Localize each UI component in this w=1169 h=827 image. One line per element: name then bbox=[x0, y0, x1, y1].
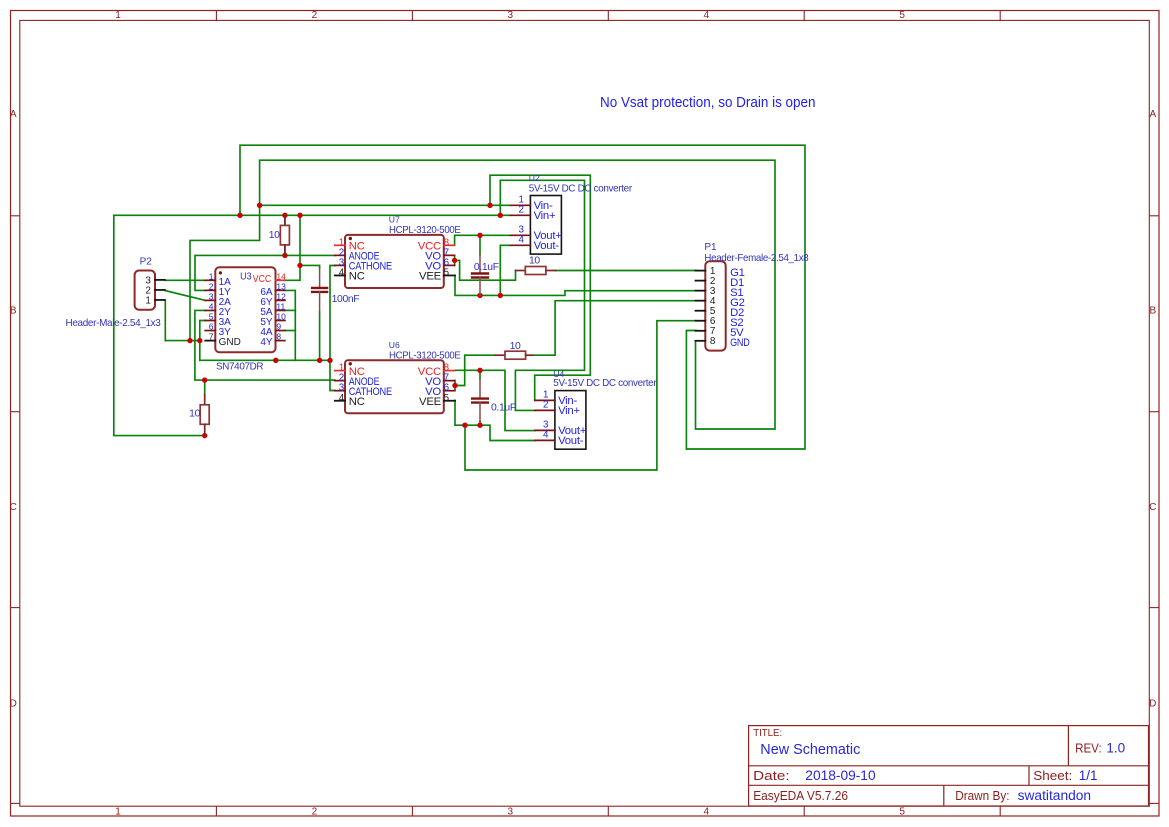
wire P2 pin3 to U3 pin1 bbox=[165, 279, 205, 281]
svg-text:VEE: VEE bbox=[419, 271, 442, 283]
junction R4 bottom bbox=[202, 433, 207, 438]
wire 0.1uF C2 top stub bbox=[479, 235, 481, 255]
wire R1 top stub bbox=[284, 215, 286, 225]
junction R1 top bbox=[282, 213, 287, 218]
svg-text:Header-Female-2.54_1x8: Header-Female-2.54_1x8 bbox=[704, 253, 809, 264]
svg-text:U3: U3 bbox=[240, 271, 252, 282]
svg-text:C: C bbox=[10, 502, 17, 513]
junction GND wireC bbox=[257, 203, 262, 208]
svg-text:4: 4 bbox=[339, 393, 345, 404]
wire 5V branch to U4 Vin+ bbox=[500, 180, 584, 410]
svg-text:9: 9 bbox=[276, 322, 281, 332]
junction C2 bottom bbox=[477, 293, 482, 298]
wire U3 2Y to U6 ANODE rail bbox=[195, 310, 335, 380]
svg-text:7: 7 bbox=[209, 332, 214, 342]
svg-text:EasyEDA V5.7.26: EasyEDA V5.7.26 bbox=[753, 789, 848, 803]
svg-text:0.1uF: 0.1uF bbox=[474, 262, 499, 273]
wire VEE to P1 S2 bbox=[465, 321, 696, 470]
svg-text:8: 8 bbox=[710, 336, 716, 347]
junction 100nF bottom bbox=[317, 358, 322, 363]
opto-coupler U7 HCPL-3120-500E bbox=[335, 214, 461, 288]
svg-text:REV:: REV: bbox=[1075, 741, 1102, 755]
svg-text:5: 5 bbox=[899, 807, 905, 818]
svg-text:2: 2 bbox=[518, 205, 523, 216]
wire 5V horizontal rail bbox=[114, 214, 511, 216]
opto-coupler U6 HCPL-3120-500E bbox=[335, 340, 461, 413]
wire U6 VO to R3 bbox=[455, 355, 495, 385]
svg-text:Vout-: Vout- bbox=[558, 435, 584, 447]
svg-text:swatitandon: swatitandon bbox=[1018, 788, 1092, 803]
svg-text:6: 6 bbox=[209, 322, 214, 332]
wire R3 to P1 G2 bbox=[533, 301, 696, 356]
svg-text:Vin+: Vin+ bbox=[534, 210, 556, 222]
svg-text:Date:: Date: bbox=[753, 769, 789, 783]
svg-text:5: 5 bbox=[899, 10, 905, 21]
svg-text:13: 13 bbox=[276, 281, 286, 291]
wire U3 pin13 bus bbox=[285, 290, 295, 360]
wire 5V: P1 pin7 to top rail bbox=[240, 145, 805, 449]
wire R4 bottom stub bbox=[204, 434, 206, 436]
svg-text:2: 2 bbox=[209, 281, 214, 291]
svg-text:2018-09-10: 2018-09-10 bbox=[805, 768, 875, 783]
wire GND branch to U4 Vin- bbox=[490, 175, 590, 400]
svg-text:VCC: VCC bbox=[253, 274, 271, 285]
DC-DC converter U2 bbox=[510, 173, 632, 254]
svg-text:No Vsat protection, so Drain i: No Vsat protection, so Drain is open bbox=[600, 94, 816, 111]
wire GND to U2 Vin- bbox=[260, 204, 511, 206]
svg-text:5: 5 bbox=[444, 393, 450, 404]
svg-text:HCPL-3120-500E: HCPL-3120-500E bbox=[389, 225, 461, 236]
junction 5V U4 branch bbox=[498, 213, 503, 218]
svg-text:TITLE:: TITLE: bbox=[753, 728, 782, 739]
svg-text:GND: GND bbox=[730, 337, 750, 349]
svg-text:10: 10 bbox=[189, 409, 200, 420]
svg-text:Drawn By:: Drawn By: bbox=[955, 789, 1009, 803]
svg-text:B: B bbox=[10, 306, 17, 317]
svg-text:11: 11 bbox=[276, 301, 285, 311]
svg-text:10: 10 bbox=[269, 230, 280, 241]
svg-text:0.1uF: 0.1uF bbox=[491, 402, 516, 413]
svg-text:1: 1 bbox=[115, 807, 121, 818]
junction VEE S2 bbox=[462, 423, 467, 428]
junction U6 VO tie bbox=[452, 383, 457, 388]
svg-text:10: 10 bbox=[529, 255, 540, 266]
wire R2 to P1 G1 bbox=[556, 270, 697, 272]
svg-text:Vout-: Vout- bbox=[534, 240, 560, 252]
wire U3 pin5 drop bbox=[200, 321, 205, 361]
wire VCC to 100nF top bbox=[300, 265, 320, 268]
junction GND P2 bbox=[187, 338, 192, 343]
svg-text:4: 4 bbox=[704, 807, 710, 818]
DC-DC converter U4 bbox=[535, 369, 657, 449]
svg-text:5V-15V DC DC converter: 5V-15V DC DC converter bbox=[553, 378, 657, 389]
svg-text:NC: NC bbox=[349, 271, 365, 283]
svg-text:4: 4 bbox=[543, 430, 549, 441]
junction U3 VCC riser bbox=[297, 213, 302, 218]
wire U3 VCC riser bbox=[285, 215, 300, 280]
capacitor C1 100nF bbox=[311, 268, 359, 312]
svg-text:U2: U2 bbox=[529, 173, 540, 183]
svg-text:GND: GND bbox=[219, 337, 241, 348]
svg-text:1: 1 bbox=[209, 271, 214, 281]
resistor R2 10 bbox=[516, 255, 556, 274]
svg-text:A: A bbox=[10, 109, 17, 120]
svg-text:3: 3 bbox=[209, 291, 214, 301]
svg-text:4: 4 bbox=[209, 301, 214, 311]
svg-text:C: C bbox=[1149, 502, 1156, 513]
junction U7 VO tie bbox=[452, 258, 457, 263]
capacitor C3 0.1uF bbox=[471, 379, 516, 422]
junction GND U3 pin7 bbox=[197, 338, 202, 343]
svg-text:2: 2 bbox=[312, 807, 318, 818]
svg-text:14: 14 bbox=[276, 271, 286, 281]
svg-text:Sheet:: Sheet: bbox=[1033, 769, 1072, 783]
junction 5V/wireA bbox=[237, 213, 242, 218]
wire U3 pin11 stub bbox=[285, 309, 295, 311]
svg-text:1.0: 1.0 bbox=[1106, 741, 1125, 756]
wire U2 Vout- drop bbox=[500, 245, 510, 295]
svg-text:1: 1 bbox=[145, 295, 151, 306]
svg-text:4Y: 4Y bbox=[260, 337, 273, 348]
svg-text:100nF: 100nF bbox=[332, 294, 360, 305]
IC U3 SN7407DR bbox=[205, 267, 286, 372]
svg-text:12: 12 bbox=[276, 291, 286, 301]
title block bbox=[749, 726, 1149, 806]
svg-text:New Schematic: New Schematic bbox=[760, 741, 860, 758]
svg-text:Vin+: Vin+ bbox=[558, 405, 580, 417]
svg-text:D: D bbox=[1149, 699, 1156, 710]
junction R4 top bbox=[202, 377, 207, 382]
svg-text:B: B bbox=[1149, 306, 1156, 317]
svg-text:5: 5 bbox=[209, 312, 214, 322]
svg-text:P2: P2 bbox=[140, 257, 153, 268]
wire R1 bottom stub bbox=[284, 245, 286, 255]
wire 0.1uF C3 top stub bbox=[479, 370, 481, 378]
svg-text:1/1: 1/1 bbox=[1079, 768, 1098, 783]
svg-text:4: 4 bbox=[518, 235, 524, 246]
header P2 bbox=[66, 257, 165, 330]
wire P2 pin1 drop bbox=[164, 300, 166, 340]
wire 0.1uF C3 bottom stub bbox=[479, 421, 481, 425]
svg-text:5: 5 bbox=[444, 267, 450, 278]
resistor R3 10 bbox=[495, 341, 533, 359]
wire 5V left drop to R4 bbox=[114, 215, 205, 435]
svg-text:8: 8 bbox=[276, 332, 281, 342]
svg-text:SN7407DR: SN7407DR bbox=[216, 361, 264, 372]
wire U6 VO tie bbox=[454, 380, 456, 390]
wire P2 pin2 to U3 pin3 diagonal bbox=[165, 291, 205, 301]
wire 100nF bottom bbox=[319, 312, 321, 360]
svg-text:3: 3 bbox=[508, 807, 514, 818]
svg-text:1: 1 bbox=[115, 10, 121, 21]
junction CATHONE rail bbox=[327, 358, 332, 363]
wire U7 VCC to U2 Vout+ bbox=[455, 235, 511, 245]
svg-text:A: A bbox=[1149, 109, 1156, 120]
wire U3 pin9 stub bbox=[285, 330, 295, 332]
wire CATHONE link U7-U6 bbox=[330, 266, 335, 391]
svg-text:4: 4 bbox=[339, 267, 345, 278]
svg-text:P1: P1 bbox=[704, 242, 717, 253]
svg-text:D: D bbox=[10, 699, 17, 710]
svg-text:VEE: VEE bbox=[419, 396, 442, 408]
junction GND rail a bbox=[273, 358, 278, 363]
junction C3 bottom bbox=[477, 423, 482, 428]
svg-text:NC: NC bbox=[349, 396, 365, 408]
header P1 bbox=[696, 242, 809, 351]
svg-text:3: 3 bbox=[508, 10, 514, 21]
wire U7 VO tie bbox=[454, 255, 456, 265]
svg-text:HCPL-3120-500E: HCPL-3120-500E bbox=[389, 350, 461, 361]
svg-text:4: 4 bbox=[704, 10, 710, 21]
junction 100nF top bbox=[297, 263, 302, 268]
wire GND row at U3 pin7 bbox=[165, 340, 200, 342]
junction R1 bottom bbox=[282, 253, 287, 258]
svg-text:5V-15V DC DC converter: 5V-15V DC DC converter bbox=[529, 183, 633, 194]
wire U3 1Y to U7 ANODE bbox=[195, 255, 335, 290]
svg-text:Header-Male-2.54_1x3: Header-Male-2.54_1x3 bbox=[66, 318, 162, 329]
wire U7 VO to R2 bbox=[455, 260, 516, 280]
svg-text:10: 10 bbox=[276, 312, 286, 322]
svg-text:10: 10 bbox=[510, 341, 521, 352]
junction Vout- U2 bbox=[498, 293, 503, 298]
wire GND rail under U3 bbox=[200, 359, 330, 361]
capacitor C2 0.1uF bbox=[471, 254, 499, 296]
wire GND: P1 pin8 loop bbox=[190, 160, 775, 429]
wire U7 VEE rail bbox=[455, 276, 696, 296]
resistor R1 10 bbox=[269, 215, 290, 255]
svg-text:U7: U7 bbox=[389, 214, 400, 224]
junction C2 top bbox=[477, 233, 482, 238]
wire U6 VEE rail bbox=[455, 400, 535, 440]
resistor R4 10 bbox=[189, 395, 209, 435]
junction C3 top bbox=[477, 368, 482, 373]
wire U6 VCC to U4 Vout+ bbox=[455, 370, 535, 430]
junction GND U4 branch bbox=[487, 203, 492, 208]
wire R4 top stub bbox=[204, 380, 206, 395]
svg-text:2: 2 bbox=[312, 10, 318, 21]
svg-text:U6: U6 bbox=[389, 340, 400, 350]
svg-text:2: 2 bbox=[543, 400, 548, 411]
